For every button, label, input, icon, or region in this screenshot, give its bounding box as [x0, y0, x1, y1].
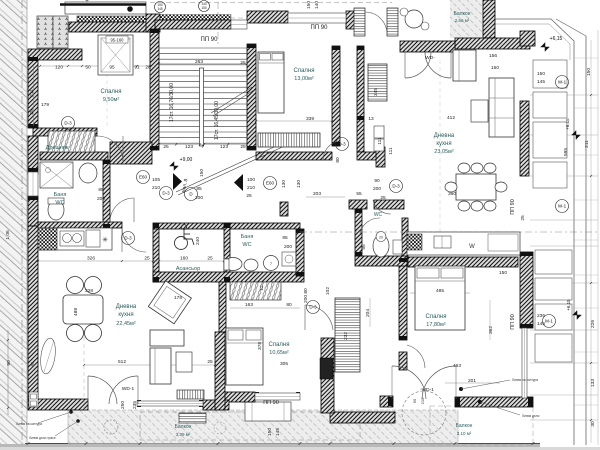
- balcony door post right: [387, 8, 398, 36]
- svg-text:+6,15: +6,15: [550, 36, 563, 42]
- WD-1 entry door top right: [405, 52, 451, 78]
- svg-text:204: 204: [365, 309, 371, 317]
- svg-text:25: 25: [246, 193, 252, 199]
- entry door triangle right flat: [234, 174, 243, 191]
- svg-text:Балкон: Балкон: [456, 423, 473, 429]
- svg-text:345: 345: [373, 88, 379, 96]
- door arc corridor to living right: [323, 141, 338, 160]
- radiator under living window: [177, 390, 204, 399]
- svg-text:163: 163: [245, 302, 253, 308]
- wall: entry wall top-right flat: [400, 41, 455, 52]
- wall: kitchen north wall (left flat): [38, 222, 122, 228]
- site boundary dash-dot line (left): [21, 0, 23, 447]
- svg-text:М-1: М-1: [545, 319, 553, 324]
- dresser on balcony mid: [245, 402, 291, 421]
- svg-text:Линия дъно: Линия дъно: [522, 414, 540, 418]
- wall: top-left corner wall: [28, 49, 82, 60]
- wall: bathroom right flat west wall: [355, 209, 362, 256]
- svg-text:Баня: Баня: [54, 192, 67, 198]
- window: staircase top window: [231, 20, 247, 29]
- svg-text:17,80м²: 17,80м²: [426, 322, 446, 328]
- svg-text:25: 25: [380, 195, 386, 201]
- svg-text:✳: ✳: [102, 236, 108, 244]
- toilet bathroom1: [48, 200, 64, 220]
- svg-text:25: 25: [144, 256, 150, 262]
- wall: party wall, right mid: [520, 101, 529, 176]
- svg-text:150: 150: [201, 6, 207, 10]
- svg-text:326: 326: [87, 256, 95, 262]
- svg-text:160: 160: [180, 256, 188, 262]
- svg-text:23,05м²: 23,05м²: [434, 149, 454, 155]
- svg-text:90: 90: [6, 360, 12, 366]
- door/window tag W-1: [556, 76, 569, 89]
- svg-text:13: 13: [368, 116, 374, 122]
- svg-text:W: W: [469, 244, 475, 250]
- sofa living left: [150, 330, 184, 346]
- svg-text:90: 90: [412, 398, 417, 403]
- dimension line corridor: [306, 196, 345, 198]
- svg-text:80: 80: [335, 157, 341, 163]
- svg-text:Балкон: Балкон: [175, 424, 192, 430]
- svg-text:9,50м²: 9,50м²: [103, 97, 119, 103]
- svg-text:226: 226: [590, 320, 596, 328]
- staircase treads: [159, 48, 247, 143]
- svg-text:12: 12: [259, 285, 265, 291]
- guide dashed axis horizontal: [300, 231, 598, 233]
- svg-text:91: 91: [134, 65, 140, 71]
- wall: core south wall: [153, 272, 304, 282]
- meter box bottom left: [29, 392, 38, 407]
- wall: top wall of bedroom 1: [69, 22, 148, 32]
- vert dim line left room1: [33, 66, 35, 126]
- svg-text:200: 200: [284, 244, 292, 250]
- dimension line room1 top: [40, 65, 150, 67]
- door/window tag D-3: [307, 301, 320, 314]
- svg-text:25: 25: [240, 60, 246, 66]
- door/window tag E60: [264, 177, 277, 190]
- bidet bathroom2: [244, 259, 258, 271]
- svg-text:210: 210: [420, 397, 425, 404]
- wardrobe hall right flat: [335, 298, 360, 372]
- leader dots bottom right: [459, 387, 463, 391]
- dining table right flat: [456, 174, 496, 200]
- column dot: [127, 6, 133, 12]
- door/window tag E60: [137, 171, 150, 184]
- staircase central stringer: [200, 68, 204, 146]
- svg-text:W-1: W-1: [558, 204, 567, 209]
- door arc kitchen left: [122, 228, 146, 252]
- svg-text:D-3: D-3: [124, 236, 132, 241]
- svg-text:145: 145: [157, 7, 163, 11]
- stair shaft diagonal: [211, 87, 252, 113]
- svg-text:203: 203: [313, 191, 321, 197]
- wall: staircase east wall: [247, 44, 256, 150]
- svg-text:123: 123: [220, 144, 228, 150]
- balcony floor top right: [450, 0, 483, 38]
- svg-text:Баня: Баня: [241, 234, 254, 240]
- svg-text:150: 150: [267, 428, 273, 436]
- window: bedroom2 top window: [288, 13, 346, 23]
- svg-text:+9,00: +9,00: [180, 157, 193, 163]
- wall: corridor wall jut: [357, 152, 383, 160]
- wall: bedroom1 south wall: [33, 128, 97, 136]
- door arc bedroom1: [97, 136, 123, 162]
- svg-text:305: 305: [280, 361, 288, 367]
- staircase up arrow: [176, 135, 300, 192]
- wall: bath/kitchen south wall right flat: [355, 256, 407, 266]
- dimension line bedroom17: [410, 292, 470, 294]
- svg-text:133: 133: [590, 379, 596, 387]
- svg-text:150: 150: [491, 65, 499, 71]
- svg-text:250: 250: [120, 401, 126, 409]
- level marker +9.00 corridor: [170, 162, 179, 171]
- wall: core north wall: [153, 223, 300, 229]
- sink right flat: [434, 236, 451, 248]
- wall: wall living/bedroom divider: [215, 332, 225, 410]
- wall: wall stub left of WD-1: [380, 396, 393, 407]
- toilet bathroom2: [224, 258, 242, 271]
- washbasin WC right flat: [393, 240, 402, 254]
- svg-text:Спалня: Спалня: [294, 68, 315, 74]
- WD-1 double door to balcony bedroom 17.8: [392, 366, 456, 399]
- svg-text:200: 200: [303, 295, 309, 303]
- vert dim 204: [369, 298, 371, 327]
- wall: south wall bedroom (17.8): [455, 397, 533, 407]
- entry door triangle left flat: [173, 173, 182, 190]
- svg-text:10,65м²: 10,65м²: [269, 350, 289, 356]
- door/window tag W-1: [556, 200, 569, 213]
- bottom main dimension line: [28, 443, 540, 445]
- svg-text:Дрешник: Дрешник: [46, 145, 69, 151]
- neighbour rooms right top: [533, 60, 567, 88]
- svg-text:130: 130: [296, 180, 302, 188]
- svg-text:Спалня: Спалня: [426, 314, 447, 320]
- svg-text:WC: WC: [55, 200, 64, 206]
- svg-text:95-160: 95-160: [110, 38, 124, 43]
- svg-text:ПП 90: ПП 90: [201, 37, 219, 43]
- svg-text:179: 179: [41, 102, 49, 108]
- svg-text:150: 150: [586, 68, 592, 76]
- svg-text:488: 488: [73, 308, 79, 316]
- svg-text:Линия на контура: Линия на контура: [16, 422, 42, 426]
- svg-text:50: 50: [85, 65, 91, 71]
- svg-text:25: 25: [240, 144, 246, 150]
- svg-text:25: 25: [207, 256, 213, 262]
- svg-text:25: 25: [207, 359, 213, 365]
- svg-text:Линия дъно трасе: Линия дъно трасе: [29, 436, 56, 440]
- svg-text:120: 120: [55, 65, 63, 71]
- neighbour rooms right bottom: [535, 250, 572, 274]
- coffee table living right: [471, 100, 488, 122]
- svg-text:7: 7: [202, 144, 205, 150]
- right column vert dim: [590, 40, 592, 443]
- door/window tag D-3: [122, 232, 135, 245]
- washbasin bathroom1: [79, 163, 97, 183]
- svg-text:123: 123: [185, 144, 193, 150]
- wall: party wall pier top: [520, 31, 535, 46]
- door/window tag D-3: [62, 117, 75, 130]
- svg-text:Линия на контура: Линия на контура: [512, 378, 538, 382]
- balcony door leaf arcs: [365, 12, 387, 34]
- svg-text:WC: WC: [242, 242, 251, 248]
- vert dim 378 bedroom2: [260, 332, 262, 358]
- window: bedroom (17.8) east window: [522, 328, 527, 398]
- wall: corridor south wall e: [374, 200, 404, 209]
- closet bedroom 13m2: [258, 133, 320, 147]
- paving strip over top wall: [77, 16, 148, 23]
- svg-text:Асансьор: Асансьор: [176, 266, 200, 272]
- svg-text:30: 30: [590, 421, 596, 427]
- balcony table set top right: [405, 10, 423, 28]
- balcony dashed contour bottom: [140, 412, 360, 440]
- guide dashed axis vertical: [217, 2, 219, 44]
- wheelchair symbol in elevator: [175, 224, 195, 249]
- wall: corridor south wall w: [349, 200, 367, 209]
- wall: elevator west wall: [153, 229, 159, 282]
- upper-floor balcony outline above top-left room: [65, 2, 146, 14]
- svg-text:235: 235: [132, 401, 138, 409]
- svg-text:WC: WC: [374, 212, 383, 218]
- svg-text:95: 95: [109, 65, 115, 71]
- svg-text:Балкон: Балкон: [454, 11, 471, 17]
- svg-text:111: 111: [388, 147, 394, 155]
- left dimension line: [7, 330, 9, 415]
- wardrobe shaft room: [368, 64, 387, 101]
- svg-text:200: 200: [373, 186, 381, 192]
- svg-text:+6,15: +6,15: [565, 118, 570, 130]
- vert dim 111: [383, 125, 385, 158]
- svg-text:80: 80: [303, 288, 309, 294]
- svg-text:130: 130: [281, 180, 287, 188]
- wall: balcony parapet mid: [330, 412, 395, 423]
- svg-text:512: 512: [118, 359, 126, 365]
- svg-text:25: 25: [520, 215, 526, 221]
- wall: wall below top-right balcony: [455, 38, 530, 49]
- svg-text:20: 20: [145, 65, 151, 71]
- coffee table living left: [176, 352, 192, 372]
- toilet WC right flat: [373, 235, 389, 257]
- svg-text:236: 236: [537, 313, 545, 319]
- door/window tag М-1: [543, 315, 556, 328]
- site boundary lines (right, with chamfer): [480, 19, 574, 445]
- wall: balcony east wall (top right): [483, 0, 495, 38]
- svg-text:E60: E60: [139, 175, 148, 180]
- svg-text:378: 378: [257, 342, 263, 350]
- wall: elevator east wall: [224, 223, 230, 282]
- svg-text:339: 339: [306, 116, 314, 122]
- svg-text:E60: E60: [266, 181, 275, 186]
- door/window tag D: [185, 188, 198, 201]
- svg-text:111: 111: [377, 137, 383, 145]
- svg-text:200: 200: [97, 196, 105, 202]
- kitchen counter left flat: [38, 228, 112, 250]
- svg-text:210: 210: [247, 185, 255, 191]
- svg-text:3,39 м²: 3,39 м²: [176, 432, 191, 437]
- svg-text:Дневна: Дневна: [116, 304, 137, 310]
- wall: party wall, right lower: [520, 252, 533, 328]
- shower door WC right flat: [360, 218, 380, 233]
- dashed swing circle on balcony: [402, 391, 446, 435]
- wall: bathroom2 east wall: [296, 229, 304, 276]
- balcony right bottom area dashes: [430, 406, 533, 445]
- cabinet blocks by shaft: [374, 126, 384, 138]
- tick strip over stair top wall: [157, 15, 231, 21]
- bathtub bathroom1: [40, 162, 73, 188]
- right margin dimension lines: [530, 94, 598, 96]
- wall: closet/bathroom1 divider: [40, 152, 108, 160]
- svg-text:80: 80: [286, 302, 292, 308]
- wall: wall pier by shaft: [376, 147, 385, 167]
- wall: bedroom (17.8) west wall pier: [399, 352, 407, 370]
- leader dots bottom left: [69, 410, 73, 414]
- wardrobe bedroom 10.65: [230, 282, 281, 300]
- svg-text:145: 145: [275, 428, 281, 436]
- wall: top wall pier right: [346, 11, 364, 29]
- svg-text:ПП 90: ПП 90: [263, 400, 279, 406]
- svg-text:D-3: D-3: [338, 142, 346, 147]
- wall: outer wall left, lower segment: [28, 226, 38, 399]
- wall: outer wall left, mid segment: [28, 136, 38, 174]
- svg-text:240: 240: [195, 237, 201, 245]
- door/window tag D-3: [336, 138, 349, 151]
- wall: south wall pier living room e: [203, 400, 229, 410]
- svg-text:595: 595: [563, 148, 569, 156]
- svg-text:Спалня: Спалня: [101, 89, 122, 95]
- wall: wall pier left of staircase: [146, 14, 160, 32]
- svg-text:кухня: кухня: [436, 141, 451, 147]
- roof dashed lines above staircase: [150, 2, 392, 4]
- wall: wall block right of closet: [110, 142, 152, 164]
- svg-text:96: 96: [30, 361, 35, 366]
- bottom scan strip: [0, 444, 540, 450]
- svg-text:412: 412: [447, 115, 455, 121]
- svg-text:D-3: D-3: [64, 121, 72, 126]
- svg-text:13,00м²: 13,00м²: [294, 76, 314, 82]
- french door to balcony living left: [88, 376, 138, 404]
- svg-text:105: 105: [152, 177, 160, 183]
- svg-text:D-3: D-3: [392, 184, 400, 189]
- wall: south wall living room w: [28, 399, 88, 410]
- svg-text:W-1: W-1: [558, 80, 567, 85]
- svg-text:ПП 90: ПП 90: [311, 25, 329, 31]
- closet hatch (Дрешник): [48, 131, 95, 152]
- vert dim 362 bedroom3: [489, 300, 491, 340]
- wall: kitchen south wall right flat: [408, 257, 518, 267]
- bed bedroom 13m2: [258, 52, 284, 113]
- dining table left flat: [63, 295, 103, 324]
- bed bedroom1 (canopy box): [98, 35, 133, 75]
- bench on balcony: [179, 413, 206, 423]
- svg-text:211: 211: [584, 140, 590, 148]
- terrace paving (fish-scale) top-left: [37, 16, 53, 48]
- dim line stairs top: [159, 63, 247, 65]
- wall: bedroom (13m2) south wall: [256, 152, 332, 160]
- svg-text:20: 20: [379, 236, 383, 240]
- wall end caps: [28, 20, 533, 407]
- bed bedroom 10.65: [226, 328, 263, 385]
- cooker left flat: [86, 230, 100, 247]
- wall: hall wall right flat: [321, 338, 334, 413]
- door/window tag D-3: [390, 180, 403, 193]
- svg-text:+6,15: +6,15: [566, 299, 571, 311]
- svg-text:463: 463: [453, 363, 461, 369]
- svg-text:201: 201: [468, 378, 476, 384]
- door arc bathroom1: [110, 198, 134, 222]
- svg-text:263: 263: [195, 59, 203, 65]
- svg-text:25: 25: [163, 144, 169, 150]
- plant on balcony: [104, 420, 118, 434]
- wall: shaft wall: [357, 46, 364, 152]
- dimension line stairs: [159, 144, 247, 146]
- svg-text:85: 85: [98, 187, 104, 193]
- sofa piece living right (top): [453, 50, 476, 81]
- svg-text:85: 85: [282, 235, 288, 241]
- svg-text:485: 485: [436, 288, 444, 294]
- fridge symbol: [38, 228, 57, 250]
- window: living room south window: [137, 401, 203, 406]
- wall: bedroom (13m2) east wall: [332, 46, 340, 146]
- wall: bathroom1 east wall: [103, 160, 110, 228]
- svg-text:211: 211: [29, 89, 35, 97]
- level marker +6.15 right mid: [572, 131, 581, 140]
- level marker circles top: [155, 2, 166, 13]
- svg-text:145: 145: [537, 79, 545, 85]
- svg-text:WD-: WD-: [425, 55, 435, 61]
- svg-text:55: 55: [356, 191, 362, 197]
- kitchen sink left flat: [60, 231, 84, 246]
- svg-text:140: 140: [314, 1, 320, 9]
- door arc bedroom 10.65: [305, 305, 333, 330]
- dimension line 512: [84, 364, 215, 366]
- wall: staircase west wall: [150, 29, 159, 150]
- level marker +6.15 top right: [541, 43, 550, 52]
- svg-text:Спалня: Спалня: [269, 342, 290, 348]
- dining chairs right flat: [445, 163, 507, 211]
- svg-text:360: 360: [448, 191, 456, 197]
- svg-text:210: 210: [152, 185, 160, 191]
- wall: top wall left of bedroom 2 window: [247, 11, 288, 23]
- svg-text:WD-1: WD-1: [122, 386, 135, 392]
- svg-text:178: 178: [174, 295, 182, 301]
- wall: corridor/bedroom thin wall: [219, 282, 226, 332]
- dimension line kitchen row: [38, 260, 230, 262]
- wall: wall WC/kitchen divider right flat: [402, 218, 408, 258]
- svg-text:85: 85: [196, 186, 202, 192]
- wall: south wall bedroom (10.65) w: [222, 392, 255, 402]
- window: bathroom1 window (left wall): [28, 172, 38, 196]
- neighbour site hatched strip (left edge): [0, 0, 27, 447]
- svg-text:-WD-1: -WD-1: [420, 387, 434, 393]
- svg-text:+: +: [85, 0, 89, 5]
- svg-text:362: 362: [488, 326, 494, 334]
- svg-text:Дневна: Дневна: [434, 133, 455, 139]
- wall: outer wall left, at bathroom: [28, 196, 38, 226]
- wall: outer wall left, upper segment: [28, 57, 38, 128]
- kitchen counter right flat: [407, 232, 520, 255]
- dimension line bedroom13: [256, 120, 332, 122]
- balcony floor bottom (hatched): [68, 410, 458, 444]
- svg-text:22,45м²: 22,45м²: [116, 321, 136, 327]
- svg-text:100: 100: [247, 177, 255, 183]
- svg-text:90: 90: [374, 178, 380, 184]
- svg-text:2,66 м²: 2,66 м²: [455, 18, 470, 23]
- window: bedroom (10.65) south window: [255, 393, 300, 400]
- wall: wall chunk below corridor: [280, 202, 288, 216]
- dimension line bath row: [230, 307, 300, 309]
- cooker right flat: [407, 234, 422, 250]
- svg-text:95: 95: [361, 244, 367, 250]
- svg-text:17ст. 16,76/30,00: 17ст. 16,76/30,00: [169, 83, 175, 122]
